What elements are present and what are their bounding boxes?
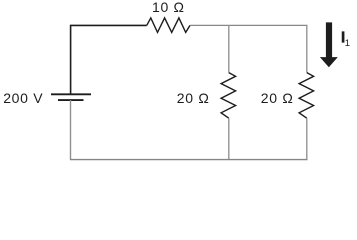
- svg-text:20 Ω: 20 Ω: [177, 90, 210, 106]
- resistor R2 20Ω vertical zigzag (middle): [221, 73, 236, 119]
- wire: right branch top segment: [306, 25, 308, 72]
- wire: top from R1 to top-right corner (grey): [190, 24, 308, 26]
- svg-text:20 Ω: 20 Ω: [261, 90, 294, 106]
- resistor R1 10Ω horizontal zigzag: [147, 18, 190, 33]
- current arrow I1 (downward): [320, 22, 338, 67]
- wire: middle branch top segment: [228, 25, 230, 72]
- wire: middle branch bottom segment: [228, 118, 230, 159]
- wire: left side below battery negative terminal: [70, 100, 72, 160]
- wire: right branch bottom segment: [306, 118, 308, 159]
- battery V1 long plate: [51, 93, 91, 95]
- battery V1 short plate: [58, 99, 84, 101]
- resistor R3 20Ω vertical zigzag (right): [299, 73, 314, 119]
- svg-text:10 Ω: 10 Ω: [152, 0, 185, 15]
- wire: bottom return: [70, 159, 308, 161]
- wire: battery positive terminal up left side and along top to R1 (black): [71, 25, 147, 94]
- svg-text:200 V: 200 V: [3, 90, 43, 106]
- svg-text:1: 1: [345, 38, 350, 49]
